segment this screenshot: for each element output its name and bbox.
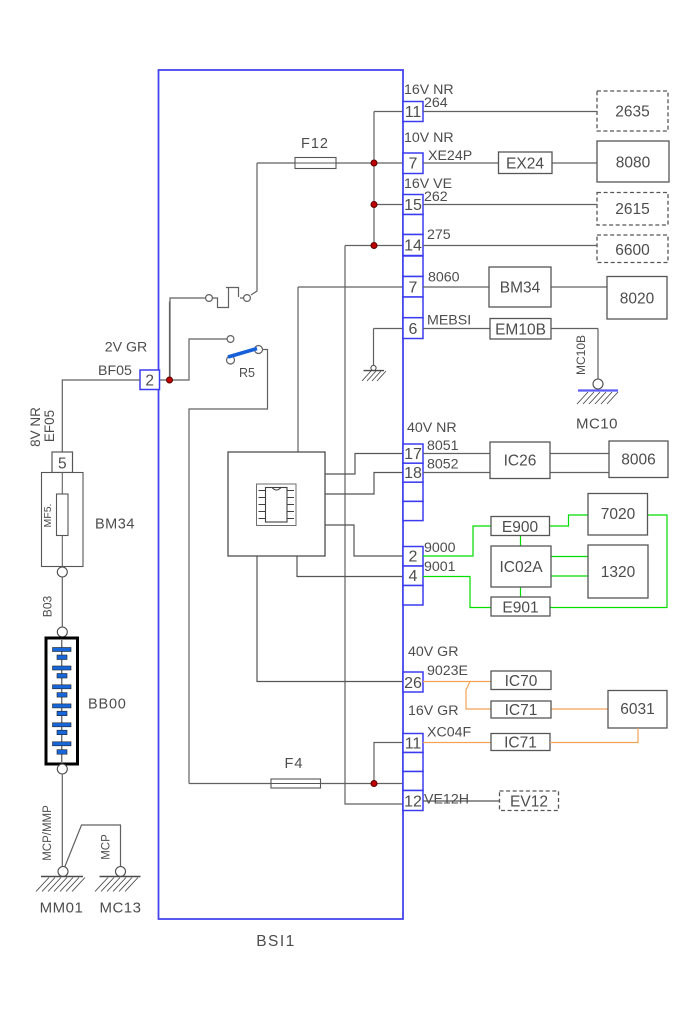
pin numbers xyxy=(404,104,422,811)
svg-text:5: 5 xyxy=(58,456,67,473)
relay R5 contact xyxy=(189,336,268,784)
wire orange IC71 to 6031 xyxy=(551,708,608,710)
svg-text:2: 2 xyxy=(145,373,154,390)
component 7020 xyxy=(588,494,648,536)
svg-text:14: 14 xyxy=(404,238,422,255)
junction dot xyxy=(371,202,377,208)
pin empty e3 xyxy=(403,297,423,318)
battery BB00 xyxy=(46,638,78,764)
svg-text:IC70: IC70 xyxy=(505,673,538,690)
svg-text:BF05: BF05 xyxy=(98,363,132,379)
relay R5 blue contact bar xyxy=(228,349,257,358)
svg-text:264: 264 xyxy=(424,95,448,111)
wire pin6 MEBSI to internal ground xyxy=(374,329,404,366)
svg-text:2: 2 xyxy=(409,549,418,566)
component 2635 dashed box xyxy=(597,91,668,131)
component 8080 xyxy=(597,141,669,182)
svg-text:E900: E900 xyxy=(502,519,539,536)
net labels right column xyxy=(404,82,472,808)
wire orange IC71 to 6031 bottom xyxy=(550,728,638,743)
wire U1 to pin26 9023E xyxy=(257,556,403,682)
wire F12 net: fuse input from switch xyxy=(251,163,403,295)
pin 15 (262) xyxy=(403,195,423,215)
component EM10B xyxy=(490,319,551,340)
component IC71 lower xyxy=(491,734,550,751)
fuse F4 xyxy=(271,779,321,788)
wire U1 to pin18 8052 xyxy=(325,473,403,495)
wire pin12 to EV12 xyxy=(423,800,500,802)
junction dot xyxy=(371,243,377,249)
connector pin boxes right side xyxy=(403,102,423,811)
wire to 6600 xyxy=(423,245,597,247)
component 6031 xyxy=(608,691,667,729)
junction dot xyxy=(371,781,377,787)
fuse F12 xyxy=(295,158,336,169)
svg-text:6: 6 xyxy=(409,321,418,338)
component BM34 box xyxy=(489,267,551,307)
wire supply bus vertical x374 pins 11,7,15,14 xyxy=(345,112,403,246)
svg-text:MC10: MC10 xyxy=(576,416,618,433)
svg-text:7: 7 xyxy=(409,156,418,173)
wire green E900-IC02A and IC02A-E901 xyxy=(520,536,522,598)
component IC02A xyxy=(491,546,551,587)
pin empty e6 xyxy=(403,586,423,606)
wire pin7 to EX24 to 8080 xyxy=(423,162,597,164)
component EV12 dashed box xyxy=(500,791,559,811)
svg-text:E901: E901 xyxy=(502,600,538,617)
svg-text:2615: 2615 xyxy=(615,201,649,218)
svg-text:BM34: BM34 xyxy=(95,517,135,533)
svg-text:IC71: IC71 xyxy=(504,735,537,752)
pin 14 (275) xyxy=(403,235,423,256)
ground MC13 xyxy=(116,867,126,877)
svg-text:12: 12 xyxy=(404,794,422,811)
svg-text:2635: 2635 xyxy=(615,104,649,121)
wire pin7 to BM34 to 8020 xyxy=(423,286,607,288)
microcontroller U1 outer block xyxy=(228,452,325,556)
component 6600 dashed box xyxy=(597,235,668,263)
pin 12 (VE12H) xyxy=(403,791,423,811)
pin 11 (XC04F) xyxy=(403,734,423,753)
wire green 7020 to E901 xyxy=(550,515,667,608)
pin 11 (264) xyxy=(403,102,423,122)
pin 17 (8051) xyxy=(403,444,423,463)
svg-text:MCP/MMP: MCP/MMP xyxy=(42,805,54,861)
svg-text:MCP: MCP xyxy=(101,834,113,860)
wire pin6 to EM10B to MC10 xyxy=(423,329,598,380)
pin empty e8 xyxy=(403,772,423,791)
svg-text:MC10B: MC10B xyxy=(574,335,588,375)
component BM34 fuse box xyxy=(42,473,84,567)
ground internal BSI xyxy=(362,365,386,381)
svg-text:IC26: IC26 xyxy=(504,453,537,470)
wire to 2615 xyxy=(423,204,597,206)
svg-text:40V NR: 40V NR xyxy=(407,420,457,436)
svg-text:XE24P: XE24P xyxy=(428,148,472,164)
component EX24 xyxy=(499,152,553,174)
pin 7 (XE24P) xyxy=(403,153,423,174)
pin 2 BF05 box left side xyxy=(140,370,160,390)
svg-text:IC02A: IC02A xyxy=(499,559,543,576)
BSI1 enclosure box xyxy=(159,70,404,919)
svg-text:8V NR: 8V NR xyxy=(28,407,43,447)
terminal circle xyxy=(57,567,67,577)
svg-text:R5: R5 xyxy=(239,366,255,380)
wire green IC02A to 1320 (two) xyxy=(551,557,588,577)
component 2615 dashed box xyxy=(597,193,668,226)
svg-text:9023E: 9023E xyxy=(427,663,468,679)
svg-text:EX24: EX24 xyxy=(506,156,544,173)
wire U1 to pin17 8051 xyxy=(325,454,403,475)
component E901 xyxy=(491,597,550,616)
wire MCP/MMP xyxy=(61,774,63,867)
svg-text:F12: F12 xyxy=(301,136,329,152)
pin 26 (9023E) xyxy=(403,672,423,692)
svg-text:B03: B03 xyxy=(41,596,55,618)
pin 4 (9001) xyxy=(403,566,423,586)
svg-text:MM01: MM01 xyxy=(40,900,84,917)
svg-text:8020: 8020 xyxy=(620,291,655,308)
component 1320 xyxy=(588,545,648,598)
pin 6 (MEBSI) xyxy=(403,318,423,339)
pin empty e7 xyxy=(403,753,423,772)
svg-text:MEBSI: MEBSI xyxy=(427,313,471,329)
component E900 xyxy=(491,517,550,536)
wire green pin2 to E900 xyxy=(423,526,491,556)
svg-text:9001: 9001 xyxy=(424,559,456,575)
svg-text:1320: 1320 xyxy=(601,564,636,581)
U1 socket outline xyxy=(257,484,297,526)
U1 pins xyxy=(259,491,295,519)
wire pin2 to fuse holder 5 xyxy=(62,380,140,452)
pin empty e4 xyxy=(403,482,423,501)
pin 2 (9000) xyxy=(403,547,423,567)
svg-text:17: 17 xyxy=(404,446,422,463)
svg-text:MF5.: MF5. xyxy=(42,504,54,528)
svg-text:EM10B: EM10B xyxy=(495,322,546,339)
svg-text:262: 262 xyxy=(424,189,448,205)
junction dot xyxy=(371,160,377,166)
svg-text:275: 275 xyxy=(427,227,451,243)
fuse MF5 xyxy=(57,494,69,536)
svg-text:2V GR: 2V GR xyxy=(105,340,148,356)
component IC26 xyxy=(490,442,550,479)
svg-text:40V GR: 40V GR xyxy=(408,644,458,660)
svg-text:8080: 8080 xyxy=(616,155,651,172)
wire F4 net to pins 11/empty xyxy=(189,743,403,784)
wire orange pin26 to IC70 and IC71 xyxy=(423,682,491,710)
pin 18 (8052) xyxy=(403,463,423,482)
svg-text:8006: 8006 xyxy=(621,452,655,469)
wire pin7 8060 net xyxy=(298,287,403,452)
wire pin2 BF05 net inside BSI xyxy=(160,302,228,381)
wire B03 xyxy=(61,577,63,627)
U1 DIP package body xyxy=(266,488,288,523)
wire to 2635 xyxy=(423,111,597,113)
wire green E900 to 7020 xyxy=(550,515,589,526)
svg-text:4: 4 xyxy=(409,568,418,585)
svg-text:8052: 8052 xyxy=(427,457,459,473)
svg-text:18: 18 xyxy=(404,465,422,482)
svg-text:7: 7 xyxy=(409,280,418,297)
svg-text:6600: 6600 xyxy=(615,242,650,259)
svg-text:BM34: BM34 xyxy=(500,280,541,297)
svg-text:26: 26 xyxy=(404,675,422,692)
svg-text:10V NR: 10V NR xyxy=(404,130,454,146)
svg-text:6031: 6031 xyxy=(620,701,654,718)
pin empty e5 xyxy=(403,501,423,520)
component 8006 xyxy=(609,441,668,478)
svg-text:XC04F: XC04F xyxy=(427,725,471,741)
svg-text:IC71: IC71 xyxy=(505,702,538,719)
svg-text:MC13: MC13 xyxy=(99,900,141,917)
wires pins 17/18 to IC26 to 8006 xyxy=(423,454,609,473)
pin 7 (8060) xyxy=(403,277,423,298)
component IC71 upper xyxy=(491,701,551,718)
pin 5 box BM34 xyxy=(52,452,73,473)
switch S1 push-button contact xyxy=(170,288,250,381)
terminal circle xyxy=(57,764,67,774)
wire pin14 to pin12 long vertical xyxy=(345,246,403,805)
svg-text:8060: 8060 xyxy=(428,270,460,286)
svg-text:15: 15 xyxy=(404,197,422,214)
svg-text:VE12H: VE12H xyxy=(424,792,469,808)
component 8020 xyxy=(607,277,667,320)
svg-text:BSI1: BSI1 xyxy=(256,933,296,950)
terminal circle xyxy=(57,627,67,637)
svg-text:11: 11 xyxy=(405,104,422,121)
svg-text:F4: F4 xyxy=(285,756,304,772)
U1 notch xyxy=(272,488,281,491)
component IC70 xyxy=(491,671,551,690)
junction dot xyxy=(167,377,173,383)
wire U1 to pin4 9001 xyxy=(297,556,403,577)
wire orange pin11 to IC71 xyxy=(423,742,491,744)
pin empty e1 xyxy=(403,215,423,235)
wire green pin4 to E901 xyxy=(423,577,491,608)
svg-text:11: 11 xyxy=(405,736,422,753)
svg-text:EV12: EV12 xyxy=(510,794,548,811)
pin empty e2 xyxy=(403,256,423,277)
svg-text:BB00: BB00 xyxy=(88,697,127,713)
svg-text:8051: 8051 xyxy=(427,438,459,454)
wire MM01 to MC13 bridge xyxy=(65,825,121,868)
svg-text:7020: 7020 xyxy=(601,506,636,523)
svg-text:16V GR: 16V GR xyxy=(408,703,458,719)
svg-text:9000: 9000 xyxy=(424,540,456,556)
wire U1 to pin2 9000 xyxy=(325,525,403,556)
ground MC10 xyxy=(593,379,603,389)
svg-text:EF05: EF05 xyxy=(42,410,57,442)
ground MM01 xyxy=(58,867,68,877)
